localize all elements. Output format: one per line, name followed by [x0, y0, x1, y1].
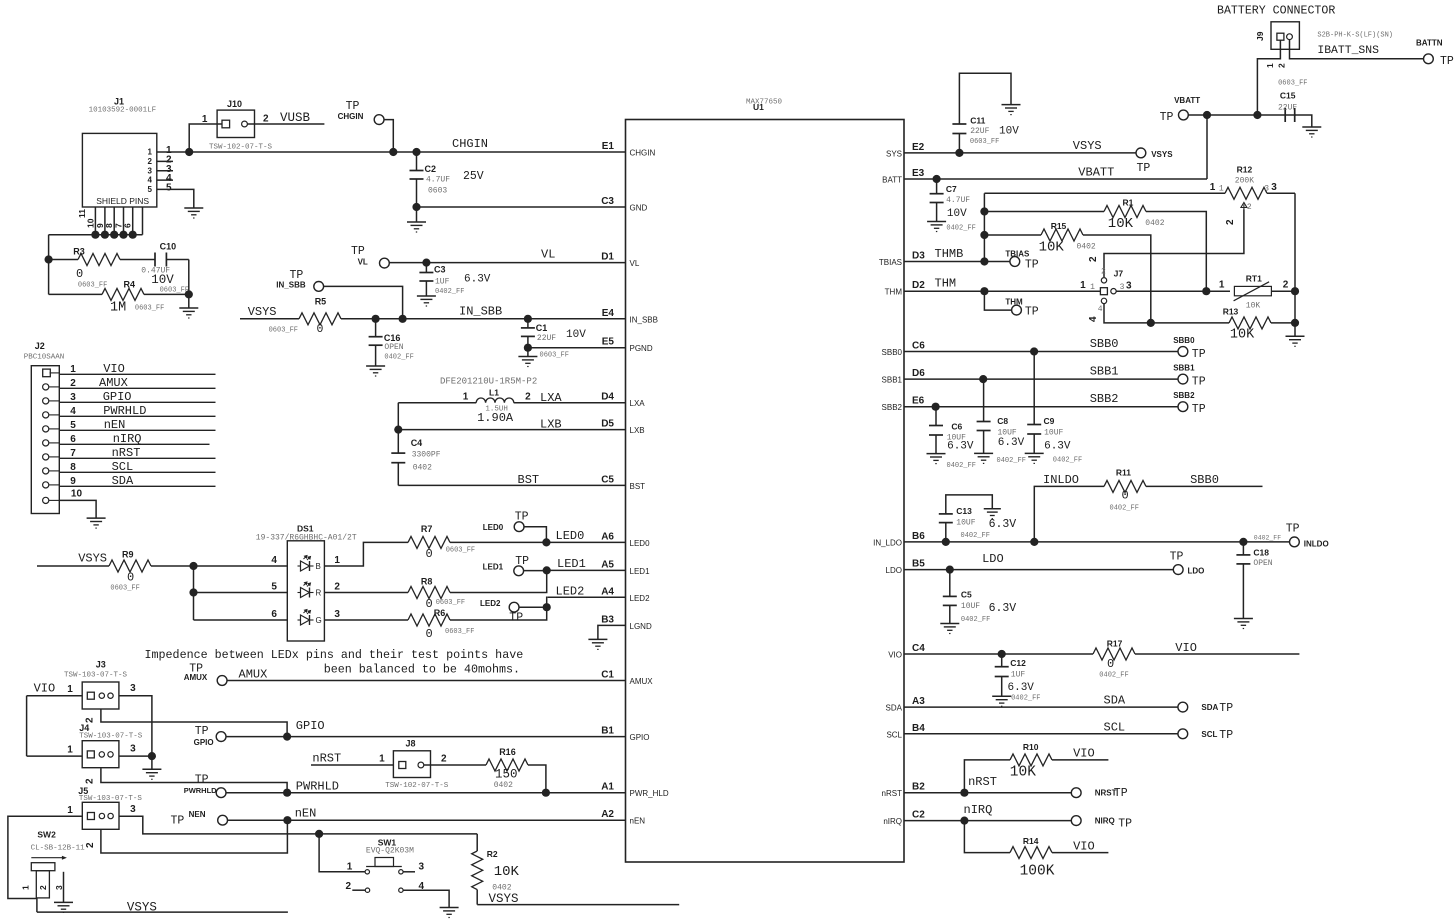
svg-text:6: 6 [123, 223, 133, 228]
svg-text:TP: TP [1160, 111, 1174, 124]
svg-text:E5: E5 [602, 337, 615, 348]
svg-text:C4: C4 [912, 643, 925, 654]
wire IN_LDO net [904, 538, 1290, 546]
svg-text:B1: B1 [601, 726, 614, 737]
wire J3 pin2 to GPIO [85, 709, 288, 737]
svg-text:BATTN: BATTN [1416, 39, 1443, 48]
connector J4 [67, 723, 143, 768]
svg-text:0402: 0402 [1077, 243, 1096, 252]
svg-text:TSW-103-07-T-S: TSW-103-07-T-S [79, 795, 143, 803]
svg-text:OPEN: OPEN [384, 343, 403, 352]
svg-text:THM: THM [885, 288, 903, 297]
capacitor C4 [391, 430, 440, 486]
svg-text:LED1: LED1 [483, 563, 504, 572]
test point TP SBB0 [1173, 336, 1206, 361]
svg-text:nIRQ: nIRQ [964, 803, 993, 817]
svg-text:2: 2 [70, 378, 76, 389]
svg-text:LXA: LXA [540, 391, 562, 405]
wire R3/R4 right junction [185, 260, 193, 309]
svg-text:0: 0 [426, 547, 433, 561]
svg-text:AMUX: AMUX [99, 376, 128, 390]
svg-text:8: 8 [70, 462, 76, 473]
resistor R17 [1093, 639, 1299, 680]
svg-text:GPIO: GPIO [103, 390, 132, 404]
svg-text:0402_FF: 0402_FF [947, 462, 976, 470]
ground at R3/R4 [179, 308, 198, 318]
wire VSYS bottom-left [37, 901, 288, 915]
svg-text:VBATT: VBATT [1174, 96, 1200, 105]
svg-text:1M: 1M [110, 301, 126, 316]
switch SW2 [21, 830, 86, 913]
svg-text:TP: TP [195, 725, 209, 738]
svg-text:TBIAS: TBIAS [1005, 250, 1030, 259]
svg-text:4: 4 [148, 176, 153, 185]
capacitor C15 [1278, 80, 1312, 128]
wire VIO to J3 pin1 [27, 682, 83, 696]
wire J4 pin3 to gnd [119, 752, 156, 769]
svg-text:2: 2 [525, 392, 531, 403]
svg-text:THM: THM [1005, 298, 1023, 307]
svg-text:DFE201210U-1R5M-P2: DFE201210U-1R5M-P2 [440, 377, 537, 387]
svg-text:A1: A1 [601, 782, 614, 793]
svg-text:PGND: PGND [630, 344, 653, 353]
wire SBB2 net [904, 392, 1178, 411]
ground at J1 pin5 [184, 208, 203, 218]
svg-text:TP: TP [171, 815, 185, 828]
svg-text:VIO: VIO [1073, 840, 1095, 854]
svg-text:INLDO: INLDO [1043, 473, 1079, 487]
svg-text:TP: TP [1192, 376, 1206, 389]
svg-text:INLDO: INLDO [1304, 540, 1329, 549]
svg-text:5: 5 [148, 185, 153, 194]
DS1 pin numbers [271, 555, 340, 620]
svg-text:2: 2 [1088, 256, 1099, 262]
J2 wires 1-9 [43, 362, 216, 488]
svg-text:SBB2: SBB2 [1173, 391, 1195, 400]
inductor L1 [398, 377, 537, 426]
svg-text:0402_FF: 0402_FF [961, 616, 990, 624]
wire R8 to LED1 [450, 570, 547, 592]
svg-text:C18: C18 [1253, 548, 1269, 558]
svg-text:0402_FF: 0402_FF [1110, 505, 1139, 513]
wire LED1 net [543, 557, 626, 575]
svg-text:5: 5 [70, 420, 76, 431]
svg-text:VL: VL [541, 248, 555, 262]
svg-text:2: 2 [1277, 63, 1287, 68]
svg-text:TP: TP [1219, 729, 1233, 742]
svg-text:GPIO: GPIO [194, 738, 214, 747]
svg-text:3: 3 [130, 804, 136, 815]
svg-text:0402_FF: 0402_FF [997, 457, 1026, 465]
svg-text:B: B [316, 562, 321, 571]
wire DS1 pin2 to R8 [324, 592, 408, 594]
svg-text:MAX77650: MAX77650 [746, 99, 783, 107]
svg-text:6.3V: 6.3V [947, 441, 974, 453]
svg-text:D5: D5 [601, 419, 614, 430]
connector J1 [82, 97, 156, 208]
svg-text:1: 1 [148, 148, 153, 157]
svg-text:0402_FF: 0402_FF [1053, 457, 1082, 465]
svg-text:J2: J2 [35, 341, 45, 351]
wire J5 pin3 to nEN net [119, 816, 319, 834]
switch SW1 [346, 838, 450, 908]
svg-text:B3: B3 [601, 614, 614, 625]
ground at LGND [588, 639, 607, 649]
svg-text:TP: TP [1137, 162, 1151, 175]
svg-text:0603_FF: 0603_FF [160, 287, 189, 295]
connector J9 [1255, 22, 1393, 50]
svg-text:SBB2: SBB2 [882, 403, 903, 412]
svg-text:10K: 10K [1230, 328, 1255, 343]
svg-text:TP: TP [1286, 523, 1300, 536]
svg-text:LED2: LED2 [630, 594, 651, 603]
svg-text:AMUX: AMUX [630, 677, 654, 686]
test point TP BATTN [1416, 39, 1454, 69]
svg-text:BATTERY CONNECTOR: BATTERY CONNECTOR [1217, 5, 1335, 18]
svg-text:1UF: 1UF [1011, 671, 1026, 680]
J1 shield pins [49, 207, 143, 239]
svg-text:J10: J10 [227, 99, 242, 109]
svg-text:25V: 25V [463, 170, 484, 183]
svg-text:B2: B2 [912, 782, 925, 793]
note impedance text [145, 648, 524, 676]
svg-text:C4: C4 [411, 438, 423, 448]
resistor R14 [964, 821, 1108, 880]
svg-text:C12: C12 [1010, 658, 1026, 668]
capacitor C1 [521, 319, 586, 360]
svg-text:CHGIN: CHGIN [452, 137, 488, 151]
svg-text:3: 3 [130, 744, 136, 755]
connector J8 [379, 739, 449, 791]
resistor R2 [472, 834, 520, 905]
wire VSYS to R9 [37, 552, 109, 567]
svg-text:10: 10 [71, 488, 83, 499]
svg-text:5: 5 [271, 582, 277, 593]
ground at C7 [927, 222, 946, 232]
svg-text:0603_FF: 0603_FF [445, 628, 474, 636]
wire CHGIN net [185, 137, 625, 156]
svg-text:TP: TP [1219, 702, 1233, 715]
wire THM net [904, 277, 1100, 296]
ground at SW1 pin4 [440, 908, 459, 918]
test point TP LED1 [483, 555, 547, 576]
svg-text:LDO: LDO [982, 552, 1004, 566]
svg-text:A3: A3 [912, 696, 925, 707]
svg-text:nRST: nRST [312, 752, 341, 766]
svg-text:R14: R14 [1023, 836, 1039, 846]
svg-text:SBB1: SBB1 [882, 376, 903, 385]
svg-text:IBATT_SNS: IBATT_SNS [1317, 45, 1379, 57]
svg-text:S2B-PH-K-S(LF)(SN): S2B-PH-K-S(LF)(SN) [1317, 32, 1393, 40]
svg-text:NEN: NEN [189, 810, 206, 819]
svg-text:C2: C2 [425, 164, 437, 174]
svg-text:1: 1 [1090, 283, 1095, 292]
wire PGND net [524, 344, 626, 357]
svg-text:PWRHLD: PWRHLD [103, 404, 146, 418]
svg-text:VSYS: VSYS [78, 552, 107, 566]
svg-text:6.3V: 6.3V [989, 518, 1017, 531]
wire VBATT net E3 [904, 166, 1207, 184]
svg-text:VBATT: VBATT [1078, 166, 1114, 180]
svg-text:1: 1 [347, 861, 353, 872]
svg-text:J1: J1 [114, 97, 124, 107]
capacitor C3 [419, 263, 490, 296]
svg-text:2: 2 [263, 114, 269, 125]
svg-text:BATT: BATT [882, 176, 902, 185]
svg-text:19-337/R6GHBHC-A01/2T: 19-337/R6GHBHC-A01/2T [256, 534, 357, 543]
svg-text:0402_FF: 0402_FF [1254, 535, 1281, 542]
svg-text:LED1: LED1 [557, 557, 586, 571]
wire VL net [389, 248, 626, 267]
svg-text:1: 1 [463, 392, 469, 403]
capacitor C18 [1236, 542, 1272, 619]
svg-text:3: 3 [130, 683, 136, 694]
svg-text:J9: J9 [1255, 31, 1265, 41]
svg-text:0402: 0402 [413, 464, 432, 473]
svg-text:1: 1 [67, 684, 73, 695]
svg-text:10K: 10K [1010, 765, 1036, 781]
svg-text:SDA: SDA [886, 704, 903, 713]
svg-text:2: 2 [148, 157, 153, 166]
svg-text:C13: C13 [956, 506, 972, 516]
svg-text:0402_FF: 0402_FF [435, 288, 464, 296]
svg-text:C6: C6 [912, 341, 925, 352]
ground at C18 [1234, 619, 1253, 629]
op-amp U1 MAX77650 PMIC body [626, 99, 905, 863]
wire LGND stub [598, 625, 626, 639]
svg-text:10: 10 [85, 218, 95, 228]
svg-text:VSYS: VSYS [248, 305, 277, 319]
wire VSYS net E2 [904, 139, 1136, 157]
svg-text:C9: C9 [1044, 416, 1055, 426]
svg-text:10K: 10K [1246, 302, 1261, 311]
svg-text:VSYS: VSYS [1151, 150, 1173, 159]
wire AMUX net [227, 668, 626, 682]
svg-text:4: 4 [70, 406, 76, 417]
wire SBB1 net [904, 365, 1178, 384]
capacitor C8 [977, 379, 1026, 465]
wire IN_SBB net [341, 305, 626, 323]
test point TP LDO [1170, 551, 1205, 576]
svg-text:nRST: nRST [968, 775, 997, 789]
svg-text:2: 2 [38, 885, 48, 890]
capacitor C16 [369, 319, 414, 366]
svg-text:0603: 0603 [428, 187, 447, 196]
svg-text:4.7UF: 4.7UF [946, 196, 970, 205]
svg-text:LXB: LXB [630, 426, 645, 435]
wire J4 pin2 to PWRHLD [85, 768, 288, 793]
svg-text:B5: B5 [912, 559, 925, 570]
svg-text:VL: VL [630, 259, 640, 268]
wire J7 pin4 row [1104, 304, 1229, 327]
capacitor C13 [939, 495, 1017, 542]
svg-text:R10: R10 [1023, 742, 1039, 752]
svg-text:0603_FF: 0603_FF [446, 547, 475, 555]
wire R7 to LED0 [450, 529, 626, 547]
svg-text:TP: TP [515, 511, 529, 524]
svg-text:TSW-102-07-T-S: TSW-102-07-T-S [209, 144, 273, 152]
svg-text:D3: D3 [912, 251, 925, 262]
wire left rail TBIAS [980, 193, 988, 261]
svg-text:3: 3 [1126, 281, 1132, 292]
svg-text:been balanced to be 40mohms.: been balanced to be 40mohms. [324, 662, 520, 676]
svg-text:0402_FF: 0402_FF [1099, 672, 1128, 680]
svg-text:TP: TP [1192, 403, 1206, 416]
svg-text:SDA: SDA [112, 474, 134, 488]
svg-text:A4: A4 [601, 586, 614, 597]
svg-text:10V: 10V [999, 126, 1019, 138]
svg-text:0402_FF: 0402_FF [946, 225, 975, 233]
connector J3 [64, 660, 136, 710]
wire PWRHLD net [226, 780, 626, 797]
svg-text:0603_FF: 0603_FF [78, 282, 107, 290]
J2 pin10 [43, 488, 96, 518]
svg-text:10V: 10V [151, 273, 174, 287]
svg-text:0: 0 [127, 571, 134, 585]
svg-text:200K: 200K [1235, 177, 1254, 186]
svg-text:0: 0 [1122, 489, 1129, 503]
wire LXB net [394, 403, 625, 434]
svg-text:A5: A5 [601, 559, 614, 570]
svg-text:VSYS: VSYS [489, 892, 519, 906]
svg-text:PWR_HLD: PWR_HLD [630, 789, 669, 798]
svg-text:LED0: LED0 [483, 523, 504, 532]
svg-text:0: 0 [1107, 657, 1114, 671]
wire J9 pin1 [1257, 40, 1280, 115]
connector J2 [24, 341, 65, 514]
svg-text:3: 3 [334, 609, 340, 620]
svg-text:3300PF: 3300PF [412, 451, 441, 460]
capacitor C10 [141, 242, 189, 295]
svg-text:10UF: 10UF [1044, 428, 1063, 437]
svg-text:0402: 0402 [494, 781, 513, 790]
svg-text:SBB0: SBB0 [1190, 473, 1219, 487]
test point TP VBATT [1160, 96, 1201, 124]
svg-text:C5: C5 [961, 590, 972, 600]
svg-text:R9: R9 [122, 550, 134, 560]
wire VBATT rail down [1206, 115, 1208, 179]
connector J5 [67, 786, 142, 829]
svg-text:4: 4 [271, 555, 277, 566]
J10 pin1 wire [189, 114, 222, 152]
svg-text:R16: R16 [499, 747, 516, 757]
svg-text:6.3V: 6.3V [464, 274, 491, 286]
svg-text:SBB0: SBB0 [882, 348, 903, 357]
test point TP LED2 [480, 599, 547, 625]
wire J5 pin2 to nEN [85, 820, 287, 853]
svg-text:E4: E4 [602, 308, 615, 319]
svg-text:22UF: 22UF [1278, 104, 1297, 113]
svg-text:VL: VL [358, 258, 368, 267]
ground at C13 [984, 509, 1001, 519]
svg-text:TP: TP [509, 612, 523, 625]
svg-text:CHGIN: CHGIN [338, 112, 364, 121]
wire J5 pin1 rail [8, 816, 82, 898]
DS1 LED symbols [298, 556, 322, 626]
svg-text:IN_SBB: IN_SBB [276, 281, 306, 290]
wire R12 wiper to J7 pin2 [1104, 193, 1295, 291]
svg-text:R3: R3 [73, 247, 85, 257]
ground at C6 [927, 454, 946, 464]
svg-text:A6: A6 [601, 531, 614, 542]
wire SBB0 net [904, 337, 1178, 356]
resistor R9 [109, 550, 151, 593]
wire IBATT_SNS net [1277, 40, 1424, 68]
svg-text:6.3V: 6.3V [1008, 682, 1035, 694]
svg-text:6: 6 [70, 434, 76, 445]
test point TP PWRHLD [184, 774, 226, 798]
svg-text:IN_SBB: IN_SBB [459, 305, 502, 319]
svg-text:LED0: LED0 [556, 529, 585, 543]
svg-text:0: 0 [426, 597, 433, 611]
svg-text:LDO: LDO [1188, 567, 1205, 576]
test point TP NRST [1071, 787, 1127, 800]
svg-text:R: R [316, 589, 322, 598]
wire DS1 rows join [189, 566, 287, 620]
wire nRST to J8 [311, 752, 393, 766]
test point TP SCL [1178, 729, 1233, 742]
svg-text:10K: 10K [1108, 216, 1134, 232]
test point TP THM [984, 291, 1038, 318]
ground at J4 pin3 [142, 769, 161, 779]
wire shield net down-left [45, 235, 53, 295]
svg-text:VIO: VIO [34, 682, 56, 696]
wire J8 pin2 to R16 [424, 764, 486, 766]
wire J7 pin3 to RT1 [1116, 280, 1230, 296]
svg-text:EVQ-Q2K03M: EVQ-Q2K03M [366, 847, 414, 856]
svg-text:R2: R2 [487, 849, 498, 859]
svg-text:0: 0 [76, 267, 83, 281]
svg-text:J4: J4 [79, 723, 89, 733]
svg-text:TP: TP [195, 774, 209, 787]
svg-text:nIRQ: nIRQ [883, 817, 902, 826]
svg-text:2: 2 [1247, 203, 1252, 212]
ground at C8 [974, 453, 993, 463]
LED DS1 body [256, 524, 357, 642]
resistor R13 [1223, 307, 1299, 343]
svg-text:SHIELD PINS: SHIELD PINS [96, 196, 149, 206]
ground at C2 [407, 222, 426, 232]
svg-text:1: 1 [67, 805, 73, 816]
resistor R4 [49, 280, 189, 316]
capacitor C7 [930, 179, 976, 233]
wire VIO net [904, 650, 1093, 658]
svg-text:IN_LDO: IN_LDO [873, 538, 902, 547]
svg-text:nRST: nRST [112, 446, 141, 460]
svg-text:22UF: 22UF [537, 334, 556, 343]
potentiometer R12 [984, 165, 1295, 226]
wire LDO net [904, 552, 1174, 574]
svg-text:2: 2 [334, 582, 340, 593]
svg-text:E3: E3 [912, 168, 925, 179]
ground at C12 [992, 696, 1011, 706]
test point TP LED0 [483, 511, 547, 543]
svg-text:5: 5 [166, 182, 172, 193]
svg-text:4: 4 [1088, 316, 1099, 322]
svg-text:R15: R15 [1051, 221, 1067, 231]
svg-text:10K: 10K [494, 864, 520, 880]
svg-text:TP: TP [1118, 818, 1132, 831]
svg-text:C1: C1 [601, 670, 614, 681]
svg-text:0603_FF: 0603_FF [110, 585, 139, 593]
svg-text:C15: C15 [1280, 91, 1296, 101]
svg-text:0402: 0402 [1145, 219, 1164, 228]
svg-text:100K: 100K [1020, 864, 1055, 880]
svg-text:10V: 10V [947, 208, 967, 220]
svg-text:IN_SBB: IN_SBB [630, 315, 658, 324]
svg-text:CHGIN: CHGIN [630, 149, 656, 158]
svg-text:LED2: LED2 [556, 585, 585, 599]
